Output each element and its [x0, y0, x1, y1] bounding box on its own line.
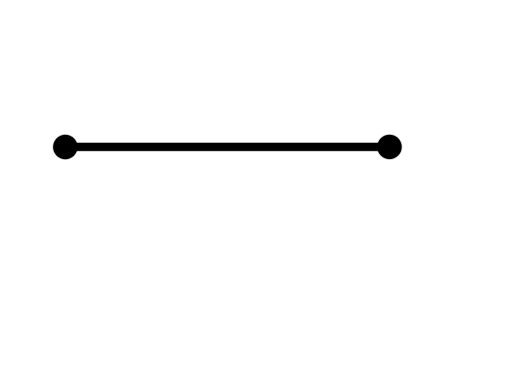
node (right junction) halo — [377, 134, 403, 160]
node (left junction) — [53, 135, 77, 159]
node (left junction) halo — [52, 134, 78, 160]
wire (soft edge halo) — [65, 142, 389, 152]
node (right junction) — [377, 135, 401, 159]
wire — [65, 143, 389, 151]
